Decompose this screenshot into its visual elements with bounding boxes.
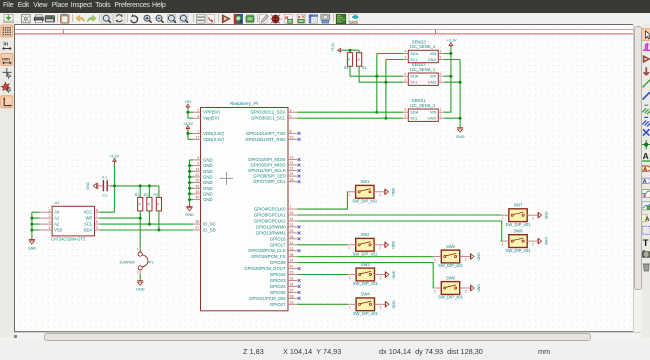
svg-text:39: 39 bbox=[195, 195, 199, 199]
junction VIN SENS2 bbox=[449, 74, 452, 77]
svg-text:GPIO9/SPI_MISO: GPIO9/SPI_MISO bbox=[250, 162, 286, 167]
svg-text:GND: GND bbox=[427, 115, 436, 120]
svg-text:GND: GND bbox=[203, 185, 213, 190]
wire pin35 to SW5 bbox=[297, 255, 433, 257]
wire pin11 to SW2 bbox=[297, 243, 347, 245]
pin 2 A1 U1 bbox=[39, 214, 59, 220]
svg-text:GND: GND bbox=[476, 283, 480, 292]
switch SW6 SW_DIP_x01 bbox=[433, 275, 480, 299]
svg-text:1: 1 bbox=[501, 216, 503, 220]
pin 38 GPIO21/PCM_DIN (right) bbox=[249, 294, 300, 300]
wire SDA net (U1 pin5 to Pi pin27) bbox=[99, 210, 193, 229]
svg-text:2: 2 bbox=[379, 193, 381, 197]
pin 35 GPIO19/PCM_FS (right) bbox=[250, 252, 297, 258]
svg-text:GND: GND bbox=[390, 187, 394, 196]
svg-text:GPIO6/GPCLK2: GPIO6/GPCLK2 bbox=[253, 218, 285, 223]
svg-text:2: 2 bbox=[464, 289, 466, 293]
svg-text:VPP(5V): VPP(5V) bbox=[203, 109, 220, 114]
svg-text:A0: A0 bbox=[54, 209, 60, 214]
svg-text:29: 29 bbox=[289, 211, 293, 215]
sensor SENS1 I2C_SENS_1 bbox=[403, 98, 444, 121]
resistor R4 bbox=[343, 52, 352, 69]
svg-text:WP: WP bbox=[85, 215, 92, 220]
wires pullup tops to rail bbox=[140, 185, 159, 197]
svg-text:GND: GND bbox=[427, 57, 436, 62]
junction GND pin bbox=[188, 186, 191, 189]
svg-text:GPIO24: GPIO24 bbox=[269, 283, 285, 288]
svg-text:16: 16 bbox=[289, 276, 293, 280]
svg-text:A1: A1 bbox=[54, 215, 60, 220]
pin 11 GPIO17 (right) bbox=[269, 240, 297, 246]
svg-text:2: 2 bbox=[136, 270, 138, 274]
pin 12 GPIO18/PCM_CLK (right) bbox=[248, 246, 300, 252]
wire SDA2 row (R4 to SENS2.SDA) bbox=[350, 66, 403, 76]
junction pin1 bbox=[186, 132, 189, 135]
junction SCL/SENS1 bbox=[384, 116, 387, 119]
svg-text:R4: R4 bbox=[343, 66, 348, 70]
svg-text:GPIO10/SPI_MOSI: GPIO10/SPI_MOSI bbox=[248, 157, 285, 162]
svg-text:8: 8 bbox=[289, 129, 291, 133]
svg-text:3: 3 bbox=[404, 78, 406, 82]
resistor R2 bbox=[143, 192, 151, 210]
pin 1 VDD(3.3V) (left) bbox=[193, 129, 225, 135]
svg-text:VDD(3.3V): VDD(3.3V) bbox=[203, 131, 225, 136]
switch SW2 SW_DIP_x01 bbox=[347, 232, 394, 256]
svg-text:I2C_SENS_1: I2C_SENS_1 bbox=[410, 44, 436, 49]
ground symbol JP1 bbox=[135, 280, 144, 291]
pin 1 A0 U1 bbox=[39, 208, 59, 214]
svg-text:GND: GND bbox=[135, 286, 144, 291]
wire pin29 to SW7 bbox=[297, 214, 500, 216]
pin 14 GND (left) bbox=[193, 167, 213, 173]
svg-text:GPIO26: GPIO26 bbox=[269, 260, 285, 265]
pin 4 Vpp(5V) (left) bbox=[193, 114, 219, 120]
pin 3 GPIO2/I2C1_SDA (right) bbox=[250, 108, 297, 114]
switch SW3 SW_DIP_x01 bbox=[348, 261, 395, 285]
svg-text:3: 3 bbox=[48, 220, 50, 224]
svg-text:1: 1 bbox=[48, 208, 50, 212]
svg-text:GPIO11/SPI_SCLK: GPIO11/SPI_SCLK bbox=[248, 168, 285, 173]
svg-text:17: 17 bbox=[195, 135, 199, 139]
pin 31 GPIO6/GPCLK2 (right) bbox=[253, 217, 297, 223]
wire I2C SDA rail from Pi pin3 bbox=[297, 111, 403, 113]
power +3.3V (left) bbox=[182, 121, 192, 130]
svg-text:SCL: SCL bbox=[410, 115, 418, 120]
pin 32 GPIO12/PWM0 (right) bbox=[255, 223, 300, 229]
svg-text:Vpp(5V): Vpp(5V) bbox=[203, 115, 219, 120]
pin 8 GPIO14/UART_TXD (right) bbox=[245, 129, 300, 135]
switch SW1 SW_DIP_x01 bbox=[347, 179, 394, 203]
svg-text:GND: GND bbox=[427, 79, 436, 84]
svg-text:19: 19 bbox=[289, 155, 293, 159]
svg-text:GPIO12/PWM0: GPIO12/PWM0 bbox=[255, 224, 286, 229]
wire SCL2 row (R5 to SENS2.SCL) bbox=[359, 66, 403, 82]
svg-text:SW2: SW2 bbox=[360, 232, 370, 237]
svg-text:20: 20 bbox=[195, 173, 199, 177]
junction U1 left bbox=[30, 228, 33, 231]
pin 24 GPIO8/SPI_CE0 (right) bbox=[253, 172, 300, 178]
svg-text:ID_SC: ID_SC bbox=[203, 221, 216, 226]
svg-text:0.1: 0.1 bbox=[102, 175, 107, 179]
junction pin2 bbox=[186, 110, 189, 113]
ground symbol sensors bbox=[455, 127, 464, 138]
svg-text:GPIO19/PCM_FS: GPIO19/PCM_FS bbox=[250, 254, 285, 259]
switch SW7 SW_DIP_x01 bbox=[500, 202, 547, 226]
svg-text:GPIO5/GPCLK1: GPIO5/GPCLK1 bbox=[253, 212, 285, 217]
svg-text:4: 4 bbox=[48, 226, 50, 230]
wire +3.3V to pins 1,17 bbox=[187, 130, 192, 139]
svg-text:A: A bbox=[645, 215, 650, 222]
pin 2 VPP(5V) (left) bbox=[193, 108, 220, 114]
cursor crosshair bbox=[220, 171, 233, 184]
pin 30 GND (left) bbox=[193, 184, 213, 190]
svg-text:I2C_SENS_1: I2C_SENS_1 bbox=[410, 66, 436, 71]
pin 6 SCL U1 bbox=[84, 220, 99, 226]
svg-text:A2: A2 bbox=[54, 221, 60, 226]
wire +3.3V rail to sensor VIN pins bbox=[443, 47, 450, 112]
svg-text:+3.3V: +3.3V bbox=[109, 154, 119, 158]
svg-text:31: 31 bbox=[289, 217, 293, 221]
svg-text:32: 32 bbox=[289, 223, 293, 227]
svg-text:4: 4 bbox=[404, 49, 406, 53]
IC U1 CAT24C32WI-GT3 bbox=[51, 200, 95, 242]
svg-text:+3.3V: +3.3V bbox=[446, 38, 456, 42]
svg-text:GND: GND bbox=[544, 236, 548, 245]
wire pin13 to SW4 bbox=[297, 303, 348, 305]
junction GND pin bbox=[188, 181, 191, 184]
junction VIN SENS3 bbox=[449, 52, 452, 55]
svg-text:2: 2 bbox=[48, 214, 50, 218]
switch SW8 SW_DIP_x01 bbox=[500, 228, 547, 252]
svg-text:GPIO17: GPIO17 bbox=[269, 242, 285, 247]
svg-text:GND: GND bbox=[203, 180, 213, 185]
svg-text:SDA: SDA bbox=[410, 73, 418, 78]
svg-text:1: 1 bbox=[501, 242, 503, 246]
svg-text:SW1: SW1 bbox=[360, 179, 370, 184]
status bar bbox=[0, 341, 650, 360]
junction R2/SCL bbox=[147, 222, 150, 225]
pin 18 GPIO24 (right) bbox=[269, 282, 300, 288]
switch SW4 SW_DIP_x01 bbox=[348, 291, 395, 315]
jumper JP1 bbox=[119, 247, 153, 274]
resistor R3 bbox=[153, 192, 161, 210]
svg-text:C1: C1 bbox=[102, 193, 107, 197]
switch SW5 SW_DIP_x01 bbox=[433, 243, 480, 267]
svg-text:36: 36 bbox=[289, 234, 293, 238]
svg-text:GPIO22: GPIO22 bbox=[269, 272, 285, 277]
wire +3.3V to R4 R5 tops bbox=[342, 50, 359, 53]
junction R4 top bbox=[348, 48, 351, 51]
svg-text:11: 11 bbox=[289, 240, 293, 244]
svg-text:ID_SD: ID_SD bbox=[203, 227, 216, 232]
pin 3 A2 U1 bbox=[39, 220, 59, 226]
svg-text:SW_DIP_x01: SW_DIP_x01 bbox=[352, 198, 378, 203]
svg-text:GPIO23: GPIO23 bbox=[269, 278, 285, 283]
svg-text:GPIO21/PCM_DIN: GPIO21/PCM_DIN bbox=[249, 295, 285, 300]
pin 37 GPIO26 (right) bbox=[269, 258, 297, 264]
pin 8 VCC U1 bbox=[83, 208, 99, 214]
svg-text:33: 33 bbox=[289, 229, 293, 233]
svg-text:SDA: SDA bbox=[410, 51, 418, 56]
svg-text:VIN: VIN bbox=[429, 109, 436, 114]
svg-text:4: 4 bbox=[404, 108, 406, 112]
svg-text:GPIO27: GPIO27 bbox=[269, 301, 285, 306]
svg-text:VSS: VSS bbox=[54, 227, 63, 232]
svg-text:GND: GND bbox=[203, 163, 213, 168]
svg-text:2: 2 bbox=[379, 246, 381, 250]
svg-text:1: 1 bbox=[439, 49, 441, 53]
svg-text:35: 35 bbox=[289, 252, 293, 256]
pin 4 VSS U1 bbox=[39, 226, 62, 232]
svg-text:SCL: SCL bbox=[410, 79, 418, 84]
wire JP1 to ground bbox=[139, 273, 141, 280]
junction GND pin bbox=[188, 169, 191, 172]
svg-text:4: 4 bbox=[404, 72, 406, 76]
svg-text:1: 1 bbox=[439, 72, 441, 76]
power +3.3V (sensors) bbox=[446, 38, 456, 47]
svg-text:GND: GND bbox=[391, 270, 395, 279]
pin 21 GPIO9/SPI_MISO (right) bbox=[250, 161, 300, 167]
sensor SENS2 I2C_SENS_1 bbox=[403, 62, 444, 85]
svg-text:CAT24C32WI-GT3: CAT24C32WI-GT3 bbox=[51, 236, 86, 241]
svg-text:Raspberry_PI: Raspberry_PI bbox=[229, 100, 257, 105]
svg-text:12: 12 bbox=[289, 246, 293, 250]
svg-text:GND: GND bbox=[203, 197, 213, 202]
pin 5 SDA U1 bbox=[83, 226, 99, 232]
svg-text:18: 18 bbox=[289, 282, 293, 286]
svg-text:GPIO3/I2C1_SCL: GPIO3/I2C1_SCL bbox=[250, 115, 285, 120]
power +5V bbox=[184, 100, 191, 109]
svg-text:GND: GND bbox=[476, 252, 480, 261]
svg-text:U1: U1 bbox=[54, 200, 60, 205]
junction R1 top bbox=[138, 184, 141, 187]
pin 15 GPIO22 (right) bbox=[269, 270, 297, 276]
svg-text:GND: GND bbox=[203, 191, 213, 196]
pin 22 GPIO25 (right) bbox=[269, 288, 300, 294]
svg-text:GND: GND bbox=[203, 157, 213, 162]
svg-text:in: in bbox=[3, 41, 9, 47]
svg-text:T: T bbox=[643, 238, 649, 249]
svg-text:GPIO18/PCM_CLK: GPIO18/PCM_CLK bbox=[248, 248, 286, 253]
pin 25 GND (left) bbox=[193, 178, 213, 184]
svg-text:24: 24 bbox=[289, 172, 293, 176]
junction GND SENS2 bbox=[458, 80, 461, 83]
pin 40 GPIO20/PCM_DOUT (right) bbox=[244, 264, 300, 270]
svg-text:6: 6 bbox=[197, 156, 199, 160]
menu bar bbox=[0, 0, 650, 13]
svg-text:SW7: SW7 bbox=[513, 202, 523, 207]
svg-text:R5: R5 bbox=[361, 66, 366, 70]
wire GND rail sensors bbox=[443, 59, 459, 127]
wire +3.3V down to U1 VCC bbox=[99, 163, 114, 212]
svg-text:+5V: +5V bbox=[184, 100, 191, 104]
pin 7 WP U1 bbox=[85, 214, 99, 220]
pin 33 GPIO13/PWM1 (right) bbox=[255, 229, 300, 235]
junction GND SENS1 bbox=[458, 116, 461, 119]
svg-text:3: 3 bbox=[289, 108, 291, 112]
pin 28 ID_SC (left) bbox=[193, 220, 216, 226]
svg-text:SDA: SDA bbox=[83, 227, 92, 232]
svg-text:SW5: SW5 bbox=[446, 243, 456, 248]
connector Raspberry_Pi bbox=[200, 100, 288, 310]
svg-text:21: 21 bbox=[289, 161, 293, 165]
ground symbol C1 (rotated left) bbox=[85, 181, 97, 189]
svg-text:VCC: VCC bbox=[83, 209, 92, 214]
svg-text:2: 2 bbox=[532, 242, 534, 246]
junction C1/+3.3V bbox=[113, 184, 116, 187]
svg-text:VIN: VIN bbox=[429, 73, 436, 78]
svg-text:SW4: SW4 bbox=[360, 291, 370, 296]
svg-text:SW_DIP_x01: SW_DIP_x01 bbox=[352, 281, 378, 286]
wire WP net (U1 pin7 - R1 - JP1) bbox=[99, 210, 140, 251]
pin 20 GND (left) bbox=[193, 173, 213, 179]
pin 6 GND (left) bbox=[193, 156, 213, 162]
wire SCL net (U1 pin6 to Pi pin28) bbox=[99, 210, 193, 223]
svg-text:SW8: SW8 bbox=[513, 228, 523, 233]
svg-text:5: 5 bbox=[289, 114, 291, 118]
svg-text:2: 2 bbox=[439, 55, 441, 59]
sensor SENS3 I2C_SENS_1 bbox=[403, 39, 444, 62]
resistor R1 bbox=[134, 192, 142, 210]
junction R2 top bbox=[147, 184, 150, 187]
svg-text:4: 4 bbox=[197, 114, 199, 118]
svg-text:15: 15 bbox=[289, 270, 293, 274]
svg-text:SCL: SCL bbox=[84, 221, 93, 226]
wire pin15 to SW3 bbox=[297, 273, 348, 275]
svg-text:23: 23 bbox=[289, 166, 293, 170]
ground symbol below Pi GND pins bbox=[185, 203, 194, 217]
svg-text:14: 14 bbox=[195, 167, 199, 171]
wire SDA vertical bus (SENS3-SENS2-SENS1) bbox=[376, 53, 402, 112]
junction SDA/SENS2 bbox=[375, 74, 378, 77]
svg-text:1: 1 bbox=[348, 305, 350, 309]
svg-text:SW_DIP_x01: SW_DIP_x01 bbox=[505, 247, 531, 252]
junction WP/R1/JP1 bbox=[138, 216, 141, 219]
svg-text:GPIO4/GPCLK0: GPIO4/GPCLK0 bbox=[253, 206, 285, 211]
svg-text:1: 1 bbox=[439, 108, 441, 112]
svg-text:SW_DIP_x01: SW_DIP_x01 bbox=[505, 221, 531, 226]
power +3.3V (rotated, feeds pullups R4 R5) bbox=[331, 41, 342, 51]
svg-text:2: 2 bbox=[379, 305, 381, 309]
junction GND pin bbox=[188, 175, 191, 178]
ground symbol U1 bbox=[27, 237, 36, 250]
svg-text:GPIO20/PCM_DOUT: GPIO20/PCM_DOUT bbox=[244, 266, 286, 271]
pin 27 ID_SD (left) bbox=[193, 226, 216, 232]
capacitor C1 0.1 bbox=[98, 175, 111, 197]
junction R3/SDA bbox=[157, 228, 160, 231]
wire U1 address pins to ground bbox=[31, 212, 39, 237]
pin 39 GND (left) bbox=[193, 195, 213, 201]
svg-text:I2C_SENS_1: I2C_SENS_1 bbox=[410, 102, 436, 107]
svg-text:GND: GND bbox=[391, 300, 395, 309]
svg-text:1: 1 bbox=[348, 193, 350, 197]
sheet frame inner line bbox=[15, 29, 633, 34]
svg-text:40: 40 bbox=[289, 264, 293, 268]
svg-text:27: 27 bbox=[195, 226, 199, 230]
svg-text:2: 2 bbox=[379, 275, 381, 279]
svg-text:A: A bbox=[643, 179, 647, 185]
junction GND pin bbox=[188, 192, 191, 195]
svg-text:+3.3V: +3.3V bbox=[182, 121, 192, 125]
pin 9 GND (left) bbox=[193, 161, 213, 167]
svg-text:13: 13 bbox=[289, 300, 293, 304]
junction GND pin bbox=[188, 198, 191, 201]
svg-text:+3.3V: +3.3V bbox=[331, 41, 335, 51]
wire I2C SCL rail from Pi pin5 bbox=[297, 117, 403, 119]
svg-text:JP1: JP1 bbox=[147, 260, 153, 264]
svg-text:SDA: SDA bbox=[410, 109, 418, 114]
svg-text:SW_DIP_x01: SW_DIP_x01 bbox=[352, 251, 378, 256]
svg-text:R1: R1 bbox=[134, 192, 139, 196]
left toolbar bbox=[0, 24, 14, 337]
wire pin31 to SW8 bbox=[297, 221, 501, 241]
svg-text:R2: R2 bbox=[143, 192, 148, 196]
pin 13 GPIO27 (right) bbox=[269, 300, 297, 306]
svg-text:34: 34 bbox=[195, 190, 199, 194]
pin 5 GPIO3/I2C1_SCL (right) bbox=[250, 114, 297, 120]
svg-text:SW_DIP_x01: SW_DIP_x01 bbox=[352, 311, 378, 316]
svg-text:28: 28 bbox=[195, 220, 199, 224]
wire pin7 to SW1 bbox=[297, 191, 347, 208]
svg-text:GPIO8/SPI_CE0: GPIO8/SPI_CE0 bbox=[253, 173, 286, 178]
svg-text:7: 7 bbox=[95, 214, 97, 218]
svg-text:1: 1 bbox=[348, 246, 350, 250]
svg-text:25: 25 bbox=[195, 178, 199, 182]
svg-text:6: 6 bbox=[95, 220, 97, 224]
svg-text:5: 5 bbox=[95, 226, 97, 230]
svg-text:A: A bbox=[643, 151, 649, 161]
svg-text:7: 7 bbox=[289, 205, 291, 209]
svg-text:GND: GND bbox=[185, 212, 194, 217]
wire SCL vertical bus bbox=[385, 59, 402, 118]
junction U1 left bbox=[30, 216, 33, 219]
svg-text:GPIO14/UART_TXD: GPIO14/UART_TXD bbox=[245, 130, 285, 135]
svg-text:2: 2 bbox=[464, 257, 466, 261]
pin 34 GND (left) bbox=[193, 190, 213, 196]
wire GND rail left of Pi bbox=[189, 159, 193, 202]
pin 19 GPIO10/SPI_MOSI (right) bbox=[248, 155, 300, 161]
svg-text:37: 37 bbox=[289, 258, 293, 262]
svg-text:GPIO7/SPI_CE1: GPIO7/SPI_CE1 bbox=[253, 179, 286, 184]
pin 10 GPIO15/UART_RXD (right) bbox=[245, 135, 300, 141]
svg-text:JUMPER: JUMPER bbox=[119, 260, 134, 264]
svg-text:SW_DIP_x01: SW_DIP_x01 bbox=[438, 263, 464, 268]
pin 23 GPIO11/SPI_SCLK (right) bbox=[248, 166, 300, 172]
svg-text:3: 3 bbox=[404, 114, 406, 118]
svg-text:10: 10 bbox=[289, 135, 293, 139]
pin 36 GPIO16 (right) bbox=[269, 234, 300, 240]
svg-text:VIN: VIN bbox=[429, 51, 436, 56]
sheet frame outer line bbox=[15, 28, 633, 30]
svg-text:GPIO2/I2C1_SDA: GPIO2/I2C1_SDA bbox=[250, 109, 285, 114]
pin 29 GPIO5/GPCLK1 (right) bbox=[253, 211, 297, 217]
junction SCL/SENS2 bbox=[384, 80, 387, 83]
svg-text:SW_DIP_x01: SW_DIP_x01 bbox=[438, 294, 464, 299]
svg-text:9: 9 bbox=[197, 161, 199, 165]
svg-text:1: 1 bbox=[348, 275, 350, 279]
svg-text:GPIO16: GPIO16 bbox=[269, 236, 285, 241]
svg-text:GND: GND bbox=[203, 174, 213, 179]
svg-text:SW6: SW6 bbox=[446, 275, 456, 280]
svg-text:30: 30 bbox=[195, 184, 199, 188]
svg-text:2: 2 bbox=[439, 78, 441, 82]
svg-text:22: 22 bbox=[289, 288, 293, 292]
junction U1 left bbox=[30, 222, 33, 225]
svg-text:GPIO25: GPIO25 bbox=[269, 289, 285, 294]
svg-text:26: 26 bbox=[289, 177, 293, 181]
svg-text:GND: GND bbox=[390, 240, 394, 249]
svg-text:1: 1 bbox=[434, 257, 436, 261]
